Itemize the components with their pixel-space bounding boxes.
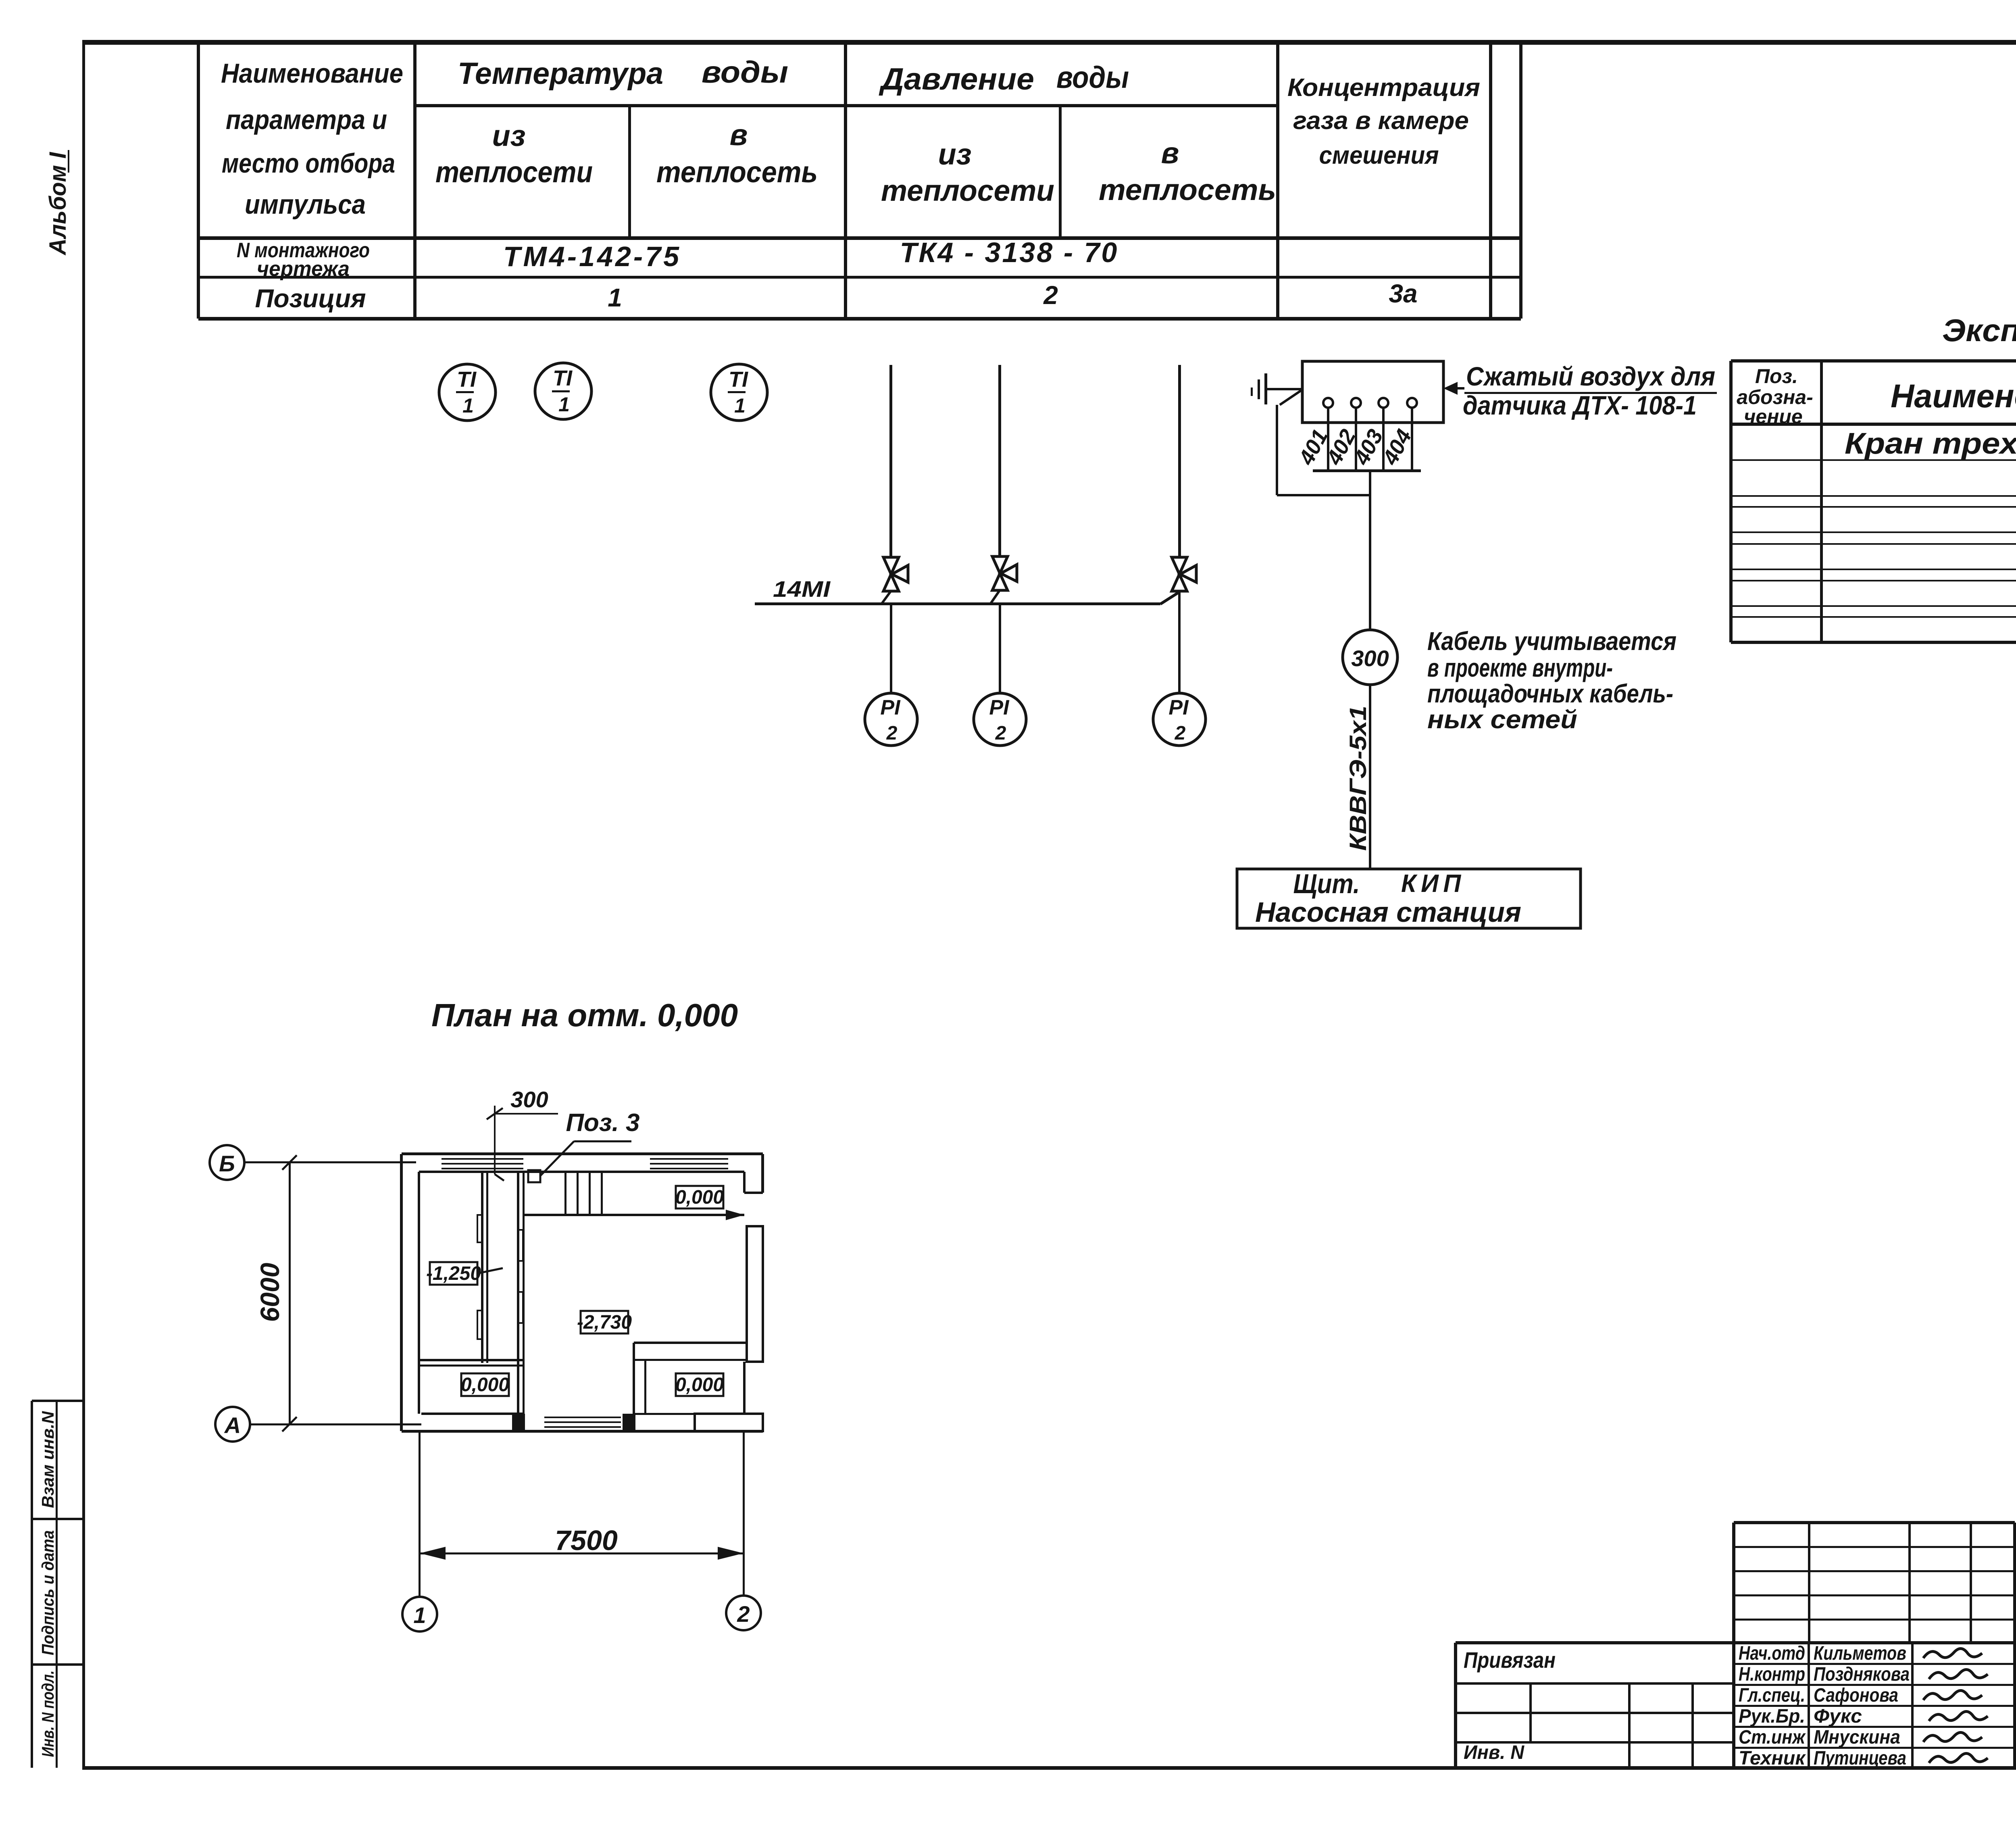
svg-text:ТI: ТI xyxy=(457,367,477,392)
svg-text:0,000: 0,000 xyxy=(675,1187,724,1208)
svg-text:из: из xyxy=(492,119,526,152)
svg-text:300: 300 xyxy=(1351,646,1389,671)
svg-text:6000: 6000 xyxy=(255,1263,285,1322)
svg-text:теплосети: теплосети xyxy=(881,174,1054,207)
svg-text:смешения: смешения xyxy=(1319,142,1439,169)
svg-text:ТI: ТI xyxy=(553,366,573,390)
svg-text:14МI: 14МI xyxy=(773,576,831,602)
svg-text:Давление: Давление xyxy=(879,62,1034,96)
svg-text:КИП: КИП xyxy=(1401,870,1466,898)
svg-text:2: 2 xyxy=(737,1601,750,1627)
svg-text:Позднякова: Позднякова xyxy=(1814,1664,1910,1685)
svg-text:2: 2 xyxy=(995,723,1006,744)
svg-text:А: А xyxy=(224,1413,241,1438)
svg-text:Подпись и дата: Подпись и дата xyxy=(38,1530,57,1655)
svg-text:300: 300 xyxy=(510,1087,548,1112)
svg-text:Мнускина: Мнускина xyxy=(1814,1727,1900,1748)
svg-text:3а: 3а xyxy=(1389,279,1417,308)
svg-text:7500: 7500 xyxy=(555,1525,618,1556)
svg-text:Н.контр: Н.контр xyxy=(1739,1664,1805,1685)
svg-text:Концентрация: Концентрация xyxy=(1287,74,1480,102)
svg-text:КВВГЭ-5х1: КВВГЭ-5х1 xyxy=(1345,706,1371,851)
svg-text:воды: воды xyxy=(1056,60,1129,95)
svg-text:Насосная станция: Насосная станция xyxy=(1255,896,1521,928)
svg-text:План на отм. 0,000: План на отм. 0,000 xyxy=(431,997,738,1033)
svg-text:Наименование: Наименование xyxy=(1891,378,2016,415)
svg-text:Ст.инж: Ст.инж xyxy=(1739,1727,1806,1748)
svg-text:401: 401 xyxy=(1294,425,1333,469)
svg-text:газа в камере: газа в камере xyxy=(1293,107,1469,135)
svg-text:Экспликация: Экспликация xyxy=(1942,313,2016,348)
svg-text:РI: РI xyxy=(989,696,1010,719)
svg-text:Сжатый воздух для: Сжатый воздух для xyxy=(1466,361,1715,391)
svg-text:2: 2 xyxy=(886,723,898,744)
svg-text:Кран трехходовой 14МI: Кран трехходовой 14МI xyxy=(1845,427,2016,460)
svg-text:Кильметов: Кильметов xyxy=(1814,1643,1906,1664)
svg-text:Техник: Техник xyxy=(1739,1748,1806,1769)
svg-text:РI: РI xyxy=(1168,696,1189,719)
svg-text:из: из xyxy=(938,138,972,171)
svg-text:Альбом I: Альбом I xyxy=(45,152,71,256)
svg-text:Позиция: Позиция xyxy=(255,284,366,313)
svg-text:Гл.спец.: Гл.спец. xyxy=(1739,1685,1805,1706)
svg-text:Температура: Температура xyxy=(458,56,663,91)
svg-text:Кабель учитывается: Кабель учитывается xyxy=(1427,627,1677,656)
svg-text:Щит.: Щит. xyxy=(1293,869,1360,899)
svg-text:площадочных кабель-: площадочных кабель- xyxy=(1427,679,1673,708)
svg-text:Б: Б xyxy=(219,1151,235,1176)
svg-text:1: 1 xyxy=(608,283,622,312)
svg-text:Фукс: Фукс xyxy=(1814,1706,1862,1727)
svg-text:1: 1 xyxy=(462,394,474,417)
svg-text:Инв. N подл.: Инв. N подл. xyxy=(38,1671,57,1757)
svg-text:РI: РI xyxy=(880,696,901,719)
svg-text:чение: чение xyxy=(1744,405,1803,428)
svg-text:-2,730: -2,730 xyxy=(577,1312,632,1333)
svg-text:0,000: 0,000 xyxy=(675,1374,724,1396)
svg-text:теплосеть: теплосеть xyxy=(656,155,818,189)
svg-text:теплосети: теплосети xyxy=(435,155,593,189)
svg-text:1: 1 xyxy=(734,394,746,417)
svg-text:Взам инв.N: Взам инв.N xyxy=(38,1410,57,1508)
svg-text:Поз. 3: Поз. 3 xyxy=(566,1109,639,1137)
svg-text:2: 2 xyxy=(1043,281,1058,310)
svg-text:Сафонова: Сафонова xyxy=(1814,1685,1898,1706)
svg-text:в проекте внутри-: в проекте внутри- xyxy=(1427,653,1613,682)
svg-text:импульса: импульса xyxy=(245,189,366,220)
svg-text:в: в xyxy=(1161,136,1179,170)
svg-text:Поз.: Поз. xyxy=(1755,365,1798,388)
svg-text:1: 1 xyxy=(413,1602,426,1628)
svg-text:ТМ4-142-75: ТМ4-142-75 xyxy=(503,241,681,272)
svg-text:Инв. N: Инв. N xyxy=(1464,1742,1524,1763)
svg-text:в: в xyxy=(730,118,748,152)
svg-text:место отбора: место отбора xyxy=(222,148,395,179)
svg-text:ТК4 - 3138 - 70: ТК4 - 3138 - 70 xyxy=(900,237,1119,268)
svg-text:2: 2 xyxy=(1175,723,1186,744)
svg-text:0,000: 0,000 xyxy=(461,1374,509,1396)
svg-text:-1,250: -1,250 xyxy=(426,1263,481,1284)
svg-text:ТI: ТI xyxy=(729,367,748,392)
svg-text:параметра и: параметра и xyxy=(226,104,387,135)
svg-text:датчика ДТХ- 108-1: датчика ДТХ- 108-1 xyxy=(1463,390,1697,420)
svg-text:1: 1 xyxy=(558,393,570,416)
svg-text:Путинцева: Путинцева xyxy=(1814,1748,1906,1769)
svg-text:воды: воды xyxy=(702,55,788,90)
svg-text:Привязан: Привязан xyxy=(1464,1647,1556,1673)
svg-text:теплосеть: теплосеть xyxy=(1099,173,1276,206)
svg-text:Нач.отд: Нач.отд xyxy=(1739,1643,1805,1664)
svg-text:Рук.Бр.: Рук.Бр. xyxy=(1739,1706,1805,1727)
svg-text:Наименование: Наименование xyxy=(221,58,403,89)
svg-text:ных сетей: ных сетей xyxy=(1427,705,1577,734)
svg-text:чертежа: чертежа xyxy=(257,257,350,281)
